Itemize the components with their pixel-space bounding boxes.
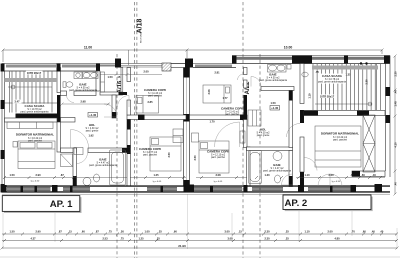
bed camera copii 2 AP1 <box>150 137 181 171</box>
svg-text:2.85: 2.85 <box>147 100 153 104</box>
svg-text:1.50: 1.50 <box>270 101 276 105</box>
svg-text:.25: .25 <box>285 230 289 234</box>
svg-text:1.50: 1.50 <box>9 173 15 177</box>
door baie2 AP2 <box>282 174 293 185</box>
level marker AP2 <box>270 106 280 111</box>
svg-text:4.10: 4.10 <box>394 142 398 148</box>
label stairs AP2 <box>319 94 336 98</box>
shower tray baie1 AP1 <box>74 72 82 79</box>
interior dimension chain y177 <box>5 177 386 179</box>
level marker AP1 <box>88 113 98 118</box>
svg-text:pard. gresie antiderapanta: pard. gresie antiderapanta <box>21 111 50 114</box>
bed dormitor AP1 <box>18 141 55 169</box>
wardrobes camera copii 2 AP2 <box>192 133 199 142</box>
stair landing band AP1 <box>5 78 58 82</box>
wc baie2 AP1 <box>94 174 100 182</box>
svg-text:2.00: 2.00 <box>328 173 334 177</box>
wall hol bottom AP1 <box>61 148 77 153</box>
small interior dims <box>14 70 351 138</box>
wardrobe column X AP2 <box>363 115 375 172</box>
svg-text:1.25: 1.25 <box>153 173 159 177</box>
sink counter baie1 AP2 <box>268 65 287 73</box>
extension lines below plan <box>3 195 397 250</box>
hall closet AP2 <box>248 110 261 126</box>
svg-text:3.47: 3.47 <box>14 100 20 104</box>
svg-text:1.48: 1.48 <box>394 101 398 107</box>
svg-text:1.00: 1.00 <box>144 230 150 234</box>
door baie1 AP1 <box>67 95 75 103</box>
closet hallway AP1 <box>61 154 73 167</box>
door camera copii 2 AP2 <box>215 122 240 147</box>
svg-text:pard. gresie antiderapanta: pard. gresie antiderapanta <box>318 81 347 84</box>
staircase AP2 <box>313 64 381 110</box>
svg-text:.70: .70 <box>350 173 354 177</box>
terrace door dormitor AP2 <box>318 174 330 186</box>
svg-text:pard. parchet: pard. parchet <box>143 154 157 157</box>
svg-text:.25: .25 <box>158 230 162 234</box>
section line A/18 pair <box>133 2 135 258</box>
svg-text:11.00: 11.00 <box>84 46 92 50</box>
window glazing lines baie1 AP1 window <box>62 64 96 66</box>
parapet thin line top terrace <box>121 64 163 66</box>
svg-text:2.30: 2.30 <box>394 71 398 77</box>
wall stair-hall AP2 vertical <box>300 64 304 104</box>
black pier top-right corner <box>384 56 390 64</box>
svg-text:1.70: 1.70 <box>209 120 215 124</box>
svg-text:pard. parchet: pard. parchet <box>28 140 42 143</box>
black pier top party wall <box>185 59 193 68</box>
wc baie2 AP2 <box>275 175 281 183</box>
step pier x232 <box>232 56 237 64</box>
svg-text:4.80: 4.80 <box>334 236 340 240</box>
svg-text:.75: .75 <box>315 70 319 74</box>
svg-text:1.92: 1.92 <box>88 134 94 138</box>
bottom dimension chain 3 total <box>1 247 399 250</box>
washbasin baie2 AP1 <box>83 178 91 186</box>
right vertical dimension chain <box>394 55 397 196</box>
wc baie1 AP1 <box>63 82 66 88</box>
svg-text:1.10: 1.10 <box>304 230 310 234</box>
bed camera copii 2 AP2 <box>199 141 229 173</box>
svg-text:pard. gresie antiderapanta: pard. gresie antiderapanta <box>263 170 292 173</box>
svg-text:pard. gresie antiderapanta: pard. gresie antiderapanta <box>89 164 118 167</box>
svg-text:lg = 4.05: lg = 4.05 <box>214 181 223 183</box>
svg-text:pard. parchet: pard. parchet <box>148 95 162 98</box>
wall below stairs AP2 <box>304 111 385 116</box>
svg-text:1.77: 1.77 <box>222 96 228 100</box>
nightstand dormitor AP1 <box>13 142 17 148</box>
svg-text:2.98: 2.98 <box>80 100 86 104</box>
door baie2 AP1 <box>77 153 88 164</box>
svg-text:1.30: 1.30 <box>264 173 270 177</box>
svg-text:3.06: 3.06 <box>207 89 211 95</box>
pier top dressing <box>115 59 121 68</box>
wall baie1 AP1 right <box>96 64 100 72</box>
svg-text:AP. 2: AP. 2 <box>285 198 308 209</box>
tick marks bottom chains <box>3 233 398 243</box>
sheet edge faint line <box>0 256 400 258</box>
svg-text:2.30: 2.30 <box>264 236 270 240</box>
svg-text:.75: .75 <box>108 230 112 234</box>
top exterior wall left section: outer face <box>2 63 193 65</box>
svg-text:.90: .90 <box>173 230 177 234</box>
top exterior wall right elevated section <box>232 55 390 57</box>
dresser row dormitor AP1 <box>7 122 53 129</box>
svg-text:1.25: 1.25 <box>138 236 144 240</box>
bathtub baie2 AP1 <box>110 150 126 185</box>
wall baie2 AP2 top <box>247 147 293 151</box>
svg-text:3.50: 3.50 <box>167 152 171 158</box>
svg-text:2.30: 2.30 <box>365 79 369 85</box>
svg-text:1.35: 1.35 <box>345 73 351 77</box>
door dressing AP1 <box>104 104 117 117</box>
svg-text:.26: .26 <box>120 230 124 234</box>
label casa scara AP1 <box>18 104 52 114</box>
dressing closet AP1 <box>101 72 105 92</box>
divider wall camera copii AP1 <box>127 115 186 120</box>
svg-text:pard. gresie: pard. gresie <box>86 130 99 133</box>
svg-text:AP. 1: AP. 1 <box>50 199 73 210</box>
svg-text:3.00: 3.00 <box>224 230 230 234</box>
top dimension line <box>3 49 382 51</box>
wall stairs/baie divider AP1 <box>57 68 61 93</box>
wall stub hol west AP1 <box>61 118 76 123</box>
svg-text:10TR 28x17: 10TR 28x17 <box>320 95 335 99</box>
svg-text:+1.30: +1.30 <box>89 113 97 117</box>
svg-text:pard. parchet: pard. parchet <box>211 156 225 159</box>
svg-text:1.50: 1.50 <box>9 230 15 234</box>
wall baie1 AP2 bottom <box>261 87 294 91</box>
left exterior wall <box>1 64 3 193</box>
label casa scara AP2 <box>319 74 346 84</box>
wall below stairs AP1 <box>16 114 58 119</box>
svg-text:2.81: 2.81 <box>214 71 220 75</box>
door camera copii 1 AP2 <box>238 74 244 80</box>
svg-text:.87: .87 <box>95 230 99 234</box>
svg-text:.25: .25 <box>156 236 160 240</box>
svg-text:pard. gresie antiderapanta: pard. gresie antiderapanta <box>259 79 288 82</box>
svg-text:1.50: 1.50 <box>107 75 113 79</box>
svg-text:.25: .25 <box>285 236 289 240</box>
right exterior wall <box>389 56 391 178</box>
bottom dimension chain 2 <box>2 240 397 242</box>
svg-text:10TR 28x17: 10TR 28x17 <box>27 71 42 75</box>
box AP.1 <box>2 196 81 213</box>
camera copii AP2 window band <box>193 63 236 65</box>
svg-text:3.08: 3.08 <box>215 173 221 177</box>
svg-text:.40: .40 <box>380 230 384 234</box>
sanitary fixtures <box>61 65 309 186</box>
section line A/22 <box>242 2 244 258</box>
door dormitor AP2 <box>304 158 317 171</box>
left wall camera copii AP1 <box>127 68 131 82</box>
svg-text:+1.30: +1.30 <box>271 106 279 110</box>
door baie1 AP2 <box>251 77 261 87</box>
wall camera copii AP2 right <box>244 68 248 75</box>
svg-text:2.30: 2.30 <box>264 230 270 234</box>
svg-text:2.00: 2.00 <box>143 70 149 74</box>
svg-text:21.90: 21.90 <box>178 244 186 248</box>
door camera copii 1 AP1 <box>118 96 130 108</box>
inner face top wall left <box>2 70 100 72</box>
washer baie2 AP1 <box>74 148 83 155</box>
label stairs AP1 <box>26 71 43 75</box>
svg-text:.70: .70 <box>351 230 355 234</box>
notch wall bottom right <box>352 171 385 177</box>
interior dim line top AP1 <box>100 73 162 76</box>
box AP.2 <box>283 195 373 211</box>
wall dressing east AP1 <box>121 68 123 93</box>
svg-text:2.90: 2.90 <box>35 173 41 177</box>
band to party wall <box>171 63 185 65</box>
svg-text:lg = 4.50: lg = 4.50 <box>31 181 40 183</box>
wall dressing right AP1 <box>112 95 116 118</box>
svg-text:4.37: 4.37 <box>30 236 36 240</box>
sink counter baie1 AP1 <box>83 72 99 79</box>
svg-text:10.00: 10.00 <box>284 46 293 50</box>
wall hol2/dorm divider vertical <box>289 91 293 148</box>
svg-text:pard. parchet: pard. parchet <box>333 139 347 142</box>
staircase AP1 <box>5 72 58 113</box>
hatched pier top <box>162 63 171 71</box>
svg-text:lg = 4.05: lg = 4.05 <box>153 181 162 183</box>
washbasin baie2 AP2 <box>273 152 282 161</box>
terrace edge line bottom <box>2 193 390 195</box>
wardrobe camera copii 2 AP1 <box>173 129 183 143</box>
svg-text:pard. gresie: pard. gresie <box>257 134 270 137</box>
section line A/16 <box>116 54 118 258</box>
svg-text:A/18: A/18 <box>137 19 144 34</box>
door hol2 to casa scara AP2 <box>287 124 301 138</box>
bottom exterior wall <box>2 185 390 186</box>
wall baie2 AP2 left <box>247 147 251 186</box>
svg-text:3.00: 3.00 <box>227 236 233 240</box>
stair walk line AP2 <box>315 103 372 105</box>
svg-text:2.00: 2.00 <box>327 230 333 234</box>
svg-text:pard. parchet: pard. parchet <box>225 113 239 116</box>
svg-text:.15: .15 <box>68 230 72 234</box>
dim line hol AP1 <box>61 103 111 106</box>
svg-text:.87: .87 <box>58 230 62 234</box>
svg-text:.40: .40 <box>394 182 398 186</box>
svg-text:2.53: 2.53 <box>102 236 108 240</box>
wall baie1 AP1 bottom <box>61 91 67 96</box>
wc stair hall AP2 <box>302 72 308 77</box>
svg-text:lg = 4.50: lg = 4.50 <box>332 181 341 183</box>
svg-text:.87: .87 <box>60 173 64 177</box>
ticks interior chain <box>3 176 382 179</box>
bed dormitor AP2 <box>315 126 361 167</box>
svg-text:.46: .46 <box>394 90 398 94</box>
svg-text:1.19: 1.19 <box>308 93 312 99</box>
window glazing lines stair window <box>6 65 115 67</box>
door hol to dormitor AP1 <box>71 130 89 148</box>
svg-text:.15: .15 <box>117 75 121 79</box>
stair landing band AP2 <box>312 66 378 70</box>
svg-text:SECTIUNE: SECTIUNE <box>141 32 143 43</box>
bed camera copii 1 AP2 <box>203 85 231 103</box>
svg-text:.60: .60 <box>81 230 85 234</box>
svg-text:.60: .60 <box>361 173 365 177</box>
bottom dimension chain 1 <box>2 233 397 235</box>
party wall between AP1 and AP2 <box>183 68 185 187</box>
stair walk line AP1 <box>8 86 52 88</box>
svg-text:3.50: 3.50 <box>193 155 197 161</box>
black pier mid right wall <box>292 56 298 64</box>
wall dressing bottom AP1 <box>100 92 123 95</box>
divider wall camera copii AP2 <box>190 115 248 120</box>
section line right of A/22 <box>259 54 261 258</box>
svg-text:1.10: 1.10 <box>304 173 310 177</box>
bathtub baie2 AP2 <box>249 151 262 184</box>
svg-text:pard. gresie antiderapanta: pard. gresie antiderapanta <box>69 89 98 92</box>
svg-text:.15: .15 <box>238 230 242 234</box>
svg-text:.40: .40 <box>372 173 376 177</box>
svg-text:2.90: 2.90 <box>35 230 41 234</box>
bed camera copii 1 AP1 <box>136 96 159 114</box>
wall baie2 AP1 left <box>73 148 77 186</box>
svg-text:.75: .75 <box>120 236 124 240</box>
